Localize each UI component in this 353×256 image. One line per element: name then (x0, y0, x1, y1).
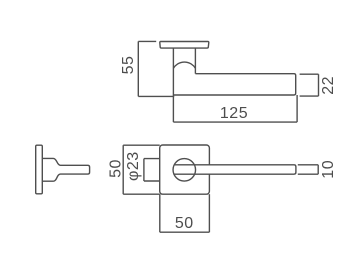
dimension 55 line (138, 41, 174, 96)
dimension 22 line (300, 74, 319, 96)
dimension φ23 line (144, 159, 160, 181)
hub circle φ23 (front view) (173, 159, 196, 182)
dimension 10 line (298, 165, 318, 174)
dimension 125 line (173, 95, 297, 122)
neck left edge (top drawing) (172, 48, 174, 95)
rose plate side view (top drawing) (160, 42, 209, 49)
svg-text:55: 55 (120, 56, 137, 75)
lever bar (front view) (174, 165, 296, 174)
hub dome arc (top drawing) (173, 62, 195, 68)
svg-text:50: 50 (175, 215, 194, 232)
svg-text:50: 50 (108, 159, 125, 178)
dimension 50 left line (123, 145, 160, 194)
svg-text:125: 125 (220, 105, 248, 122)
svg-text:φ23: φ23 (125, 151, 142, 181)
svg-text:22: 22 (320, 76, 337, 95)
lever grip (top drawing) (173, 74, 295, 95)
neck right edge (top drawing) (194, 48, 196, 74)
square rose front view (bottom-middle drawing) (160, 145, 210, 194)
handle profile view (bottom-left drawing) (42, 158, 89, 181)
svg-text:10: 10 (320, 160, 337, 179)
rose plate edge-on view (bottom-left drawing) (36, 145, 43, 194)
dimension 50 bottom line (160, 194, 210, 232)
